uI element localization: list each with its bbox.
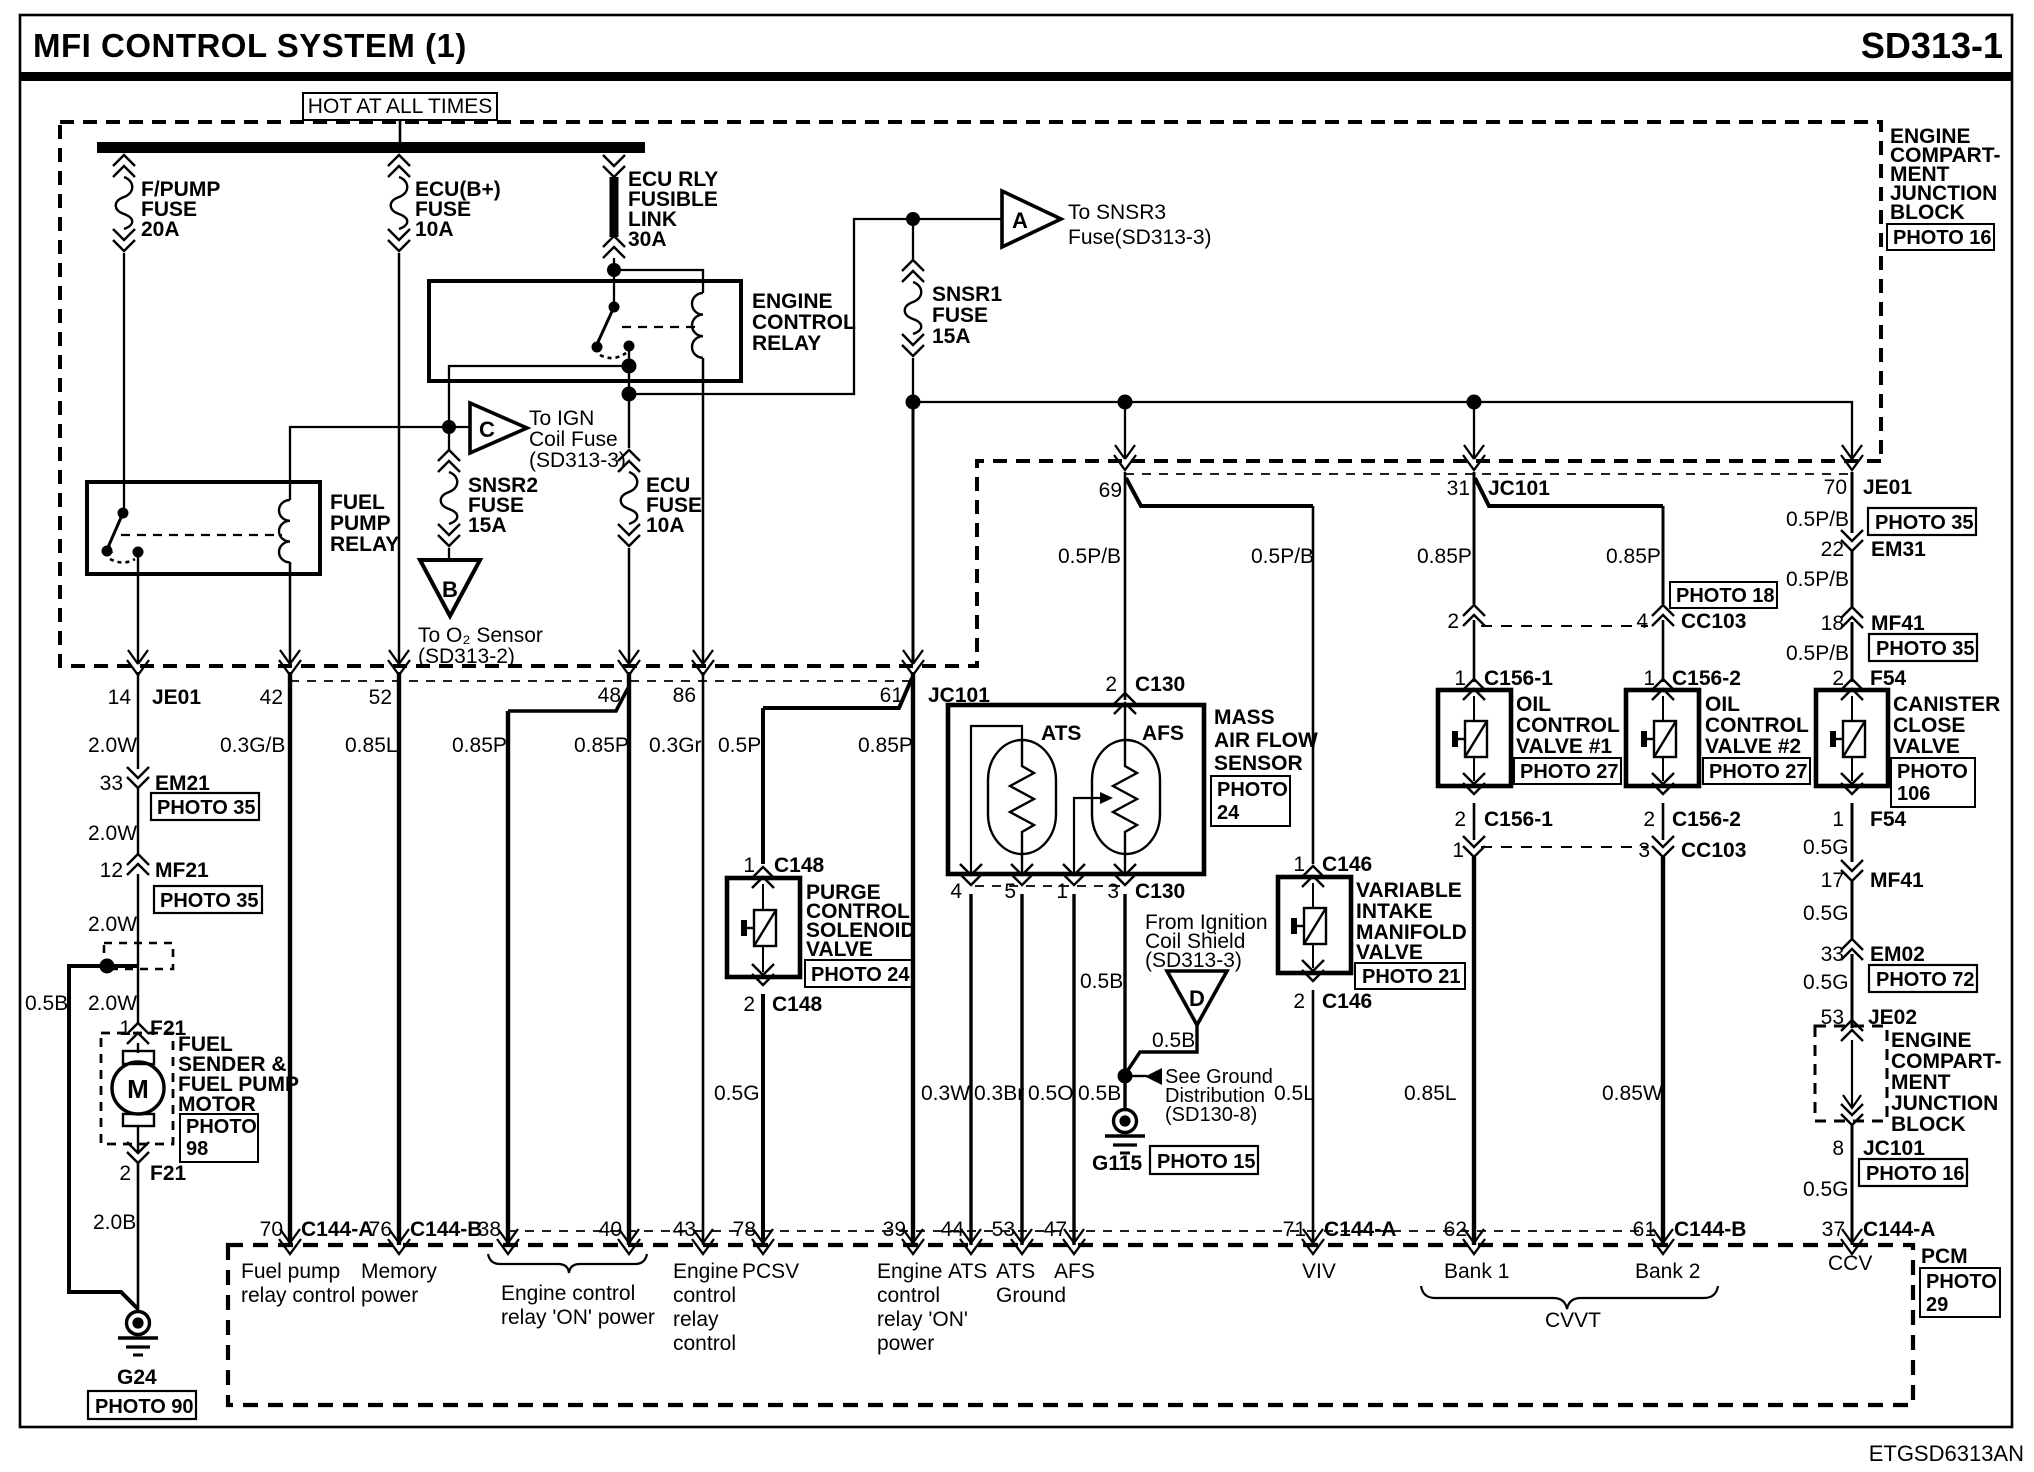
dashed link CC103 pins 2-4: [1481, 625, 1648, 627]
svg-text:2.0W: 2.0W: [88, 992, 137, 1015]
connector CC103 pin 3: [1652, 836, 1674, 857]
connector JC101 pin 8: [1841, 1104, 1863, 1125]
junction block exit pin 42: [279, 650, 301, 675]
wire node to triangle C: [449, 426, 470, 428]
svg-text:control: control: [673, 1332, 736, 1355]
svg-text:C144-B: C144-B: [1674, 1218, 1746, 1241]
wire MF41 to F54: [1851, 622, 1854, 682]
HOT AT ALL TIMES label: [303, 93, 497, 120]
svg-text:VALVE: VALVE: [1893, 735, 1960, 758]
relay U1 switch: [118, 508, 129, 519]
svg-text:0.85P: 0.85P: [858, 734, 913, 757]
svg-text:PHOTO 35: PHOTO 35: [160, 890, 259, 912]
wire branch jog pin 31 to oil valve 2: [1475, 478, 1663, 506]
svg-text:71: 71: [1283, 1218, 1306, 1241]
wire MF41 17 to EM02: [1851, 881, 1854, 940]
svg-text:ATS: ATS: [948, 1260, 987, 1283]
svg-text:70: 70: [1824, 476, 1847, 499]
svg-text:relay control: relay control: [241, 1284, 355, 1307]
svg-text:1: 1: [1056, 880, 1068, 903]
svg-text:0.85W: 0.85W: [1602, 1082, 1663, 1105]
relay U2 armature link dashed: [622, 326, 697, 328]
svg-text:C144-A: C144-A: [1324, 1218, 1396, 1241]
svg-text:CVVT: CVVT: [1545, 1309, 1601, 1332]
PCM pin 53: [1011, 1229, 1033, 1254]
photo 29 ref: [1920, 1268, 2000, 1317]
svg-text:2: 2: [1105, 673, 1117, 696]
junction block exit pin 69: [1114, 445, 1136, 470]
svg-text:8: 8: [1832, 1137, 1844, 1160]
svg-text:PHOTO 27: PHOTO 27: [1709, 761, 1808, 783]
svg-text:86: 86: [673, 684, 696, 707]
photo 15 ref: [1150, 1146, 1258, 1174]
svg-text:Memory: Memory: [361, 1260, 437, 1283]
svg-text:PHOTO: PHOTO: [1217, 779, 1288, 801]
wire link to node: [613, 258, 615, 307]
photo 24 ref (purge): [805, 960, 912, 987]
svg-text:2.0W: 2.0W: [88, 913, 137, 936]
PCM connector dashed link line: [508, 1230, 1664, 1232]
svg-text:14: 14: [108, 686, 132, 709]
wire ECU fuse to pin 48: [628, 548, 631, 664]
PCM pin 70 C144-A: [279, 1229, 301, 1254]
PCM pin 71 C144-A: [1302, 1229, 1324, 1254]
svg-text:0.3G/B: 0.3G/B: [220, 734, 285, 757]
connector pin 1 (bank1 lower): [1463, 836, 1485, 857]
photo 98 ref: [180, 1114, 258, 1162]
connector C148 pin 1: [752, 867, 774, 888]
svg-text:(SD130-8): (SD130-8): [1165, 1104, 1257, 1126]
connector C146 pin 1 (VIV): [1302, 866, 1324, 887]
purge valve internal wire: [762, 884, 764, 972]
wire pin 69 to MAF pin 2: [1124, 472, 1127, 700]
svg-text:3: 3: [1638, 839, 1650, 862]
svg-text:G24: G24: [117, 1366, 157, 1389]
svg-text:2: 2: [743, 993, 755, 1016]
svg-text:CC103: CC103: [1681, 839, 1746, 862]
svg-text:MF21: MF21: [155, 859, 209, 882]
svg-text:0.5G: 0.5G: [1803, 971, 1849, 994]
connector CC103 pin 4 (bank2): [1652, 605, 1674, 626]
wire fuse F/PUMP to fuel pump relay: [123, 253, 125, 510]
svg-text:PHOTO 16: PHOTO 16: [1893, 227, 1992, 249]
svg-text:VIV: VIV: [1302, 1260, 1336, 1283]
node below relay box: [622, 387, 637, 402]
brace CVVT: [1421, 1286, 1718, 1309]
svg-text:0.85P: 0.85P: [574, 734, 629, 757]
svg-text:0.5G: 0.5G: [714, 1082, 760, 1105]
svg-text:CLOSE: CLOSE: [1893, 714, 1965, 737]
svg-text:0.5P/B: 0.5P/B: [1786, 568, 1849, 591]
svg-text:C148: C148: [774, 854, 825, 877]
svg-text:69: 69: [1099, 479, 1122, 502]
wire node to pin 69: [1124, 402, 1126, 459]
photo 72 ref: [1869, 965, 1977, 992]
connector C156-2 pin 1: [1652, 679, 1674, 700]
svg-text:PHOTO 35: PHOTO 35: [1876, 638, 1975, 660]
svg-text:AFS: AFS: [1054, 1260, 1095, 1283]
wire pin 86 to PCM 43: [702, 672, 705, 1245]
svg-text:SNSR1: SNSR1: [932, 283, 1002, 306]
svg-text:0.85P: 0.85P: [1606, 545, 1661, 568]
wire oil valve 2 to PCM 61: [1661, 857, 1665, 1245]
wire to triangle C / SNSR2 column: [449, 366, 629, 427]
svg-text:To SNSR3: To SNSR3: [1068, 201, 1166, 224]
triangle connector D: [1167, 971, 1227, 1025]
svg-text:2.0B: 2.0B: [93, 1211, 136, 1234]
svg-text:22: 22: [1821, 538, 1844, 561]
svg-text:1: 1: [1293, 853, 1305, 876]
svg-text:JE01: JE01: [1863, 476, 1912, 499]
variable intake manifold valve box: [1278, 877, 1351, 973]
svg-text:C130: C130: [1135, 880, 1185, 903]
svg-text:PHOTO 35: PHOTO 35: [1875, 512, 1974, 534]
svg-text:98: 98: [186, 1138, 208, 1160]
PCM pin 61 C144-B: [1652, 1229, 1674, 1254]
PCM pin 43: [692, 1229, 714, 1254]
svg-text:power: power: [877, 1332, 934, 1355]
mass air flow sensor box: [948, 705, 1204, 874]
svg-text:2: 2: [1454, 808, 1466, 831]
wire to SNSR3 feed riser: [629, 219, 1002, 394]
PCM dashed box: [228, 1245, 1913, 1405]
svg-text:61: 61: [1633, 1218, 1656, 1241]
svg-text:relay 'ON' power: relay 'ON' power: [501, 1306, 655, 1329]
svg-text:MF41: MF41: [1871, 612, 1925, 635]
svg-text:0.85P: 0.85P: [452, 734, 507, 757]
svg-text:CCV: CCV: [1828, 1252, 1872, 1275]
svg-text:AIR FLOW: AIR FLOW: [1214, 729, 1318, 752]
svg-text:ENGINE: ENGINE: [752, 290, 833, 313]
svg-text:PHOTO 27: PHOTO 27: [1520, 761, 1619, 783]
svg-text:0.5G: 0.5G: [1803, 902, 1849, 925]
svg-text:2: 2: [1643, 808, 1655, 831]
PCM pin 40: [618, 1229, 640, 1254]
triangle connector C: [470, 403, 527, 453]
svg-text:ETGSD6313AN: ETGSD6313AN: [1869, 1441, 2024, 1466]
junction block exit pin 52: [388, 650, 410, 675]
photo 24 ref (MAF): [1211, 776, 1290, 826]
svg-text:47: 47: [1044, 1218, 1067, 1241]
svg-text:F54: F54: [1870, 808, 1907, 831]
svg-text:MOTOR: MOTOR: [178, 1093, 256, 1116]
svg-text:G115: G115: [1092, 1152, 1143, 1175]
svg-text:F21: F21: [150, 1162, 187, 1185]
svg-text:Engine control: Engine control: [501, 1282, 635, 1305]
svg-text:To IGN: To IGN: [529, 407, 594, 430]
svg-text:BLOCK: BLOCK: [1891, 1113, 1966, 1136]
svg-text:CONTROL: CONTROL: [1516, 714, 1620, 737]
purge control solenoid valve box: [727, 878, 800, 977]
relay U2 coil: [692, 293, 703, 358]
wire to connector 3: [1662, 803, 1665, 840]
svg-text:0.3W: 0.3W: [921, 1082, 970, 1105]
svg-text:control: control: [673, 1284, 736, 1307]
svg-text:OIL: OIL: [1516, 693, 1551, 716]
junction block exit pin 70 JE01: [1841, 445, 1863, 470]
junction block 2 dashed box: [1815, 1026, 1887, 1121]
svg-text:15A: 15A: [468, 514, 507, 537]
connector C130 pin 2: [1114, 693, 1136, 714]
svg-text:0.5B: 0.5B: [1078, 1082, 1121, 1105]
svg-text:0.5G: 0.5G: [1803, 836, 1849, 859]
svg-text:C146: C146: [1322, 990, 1372, 1013]
svg-text:0.5P/B: 0.5P/B: [1786, 508, 1849, 531]
connector MF41 pin 18: [1841, 607, 1863, 628]
wire branch jog to pin 38: [508, 688, 628, 711]
fusible link ECU RLY FUSIBLE LINK 30A: [603, 155, 625, 258]
fuse ECU(B+) FUSE 10A: [388, 155, 410, 251]
connector chevron VIV bottom: [1302, 960, 1324, 981]
svg-text:EM31: EM31: [1871, 538, 1926, 561]
photo 106 ref: [1891, 758, 1975, 807]
wire to C156-2: [1662, 620, 1665, 682]
svg-text:SENSOR: SENSOR: [1214, 752, 1303, 775]
wire F21 pin2 to ground: [137, 1163, 140, 1310]
canister solenoid element: [1833, 721, 1865, 757]
fuel pump relay box U1: [87, 482, 320, 574]
svg-text:0.5P/B: 0.5P/B: [1786, 642, 1849, 665]
wire relay U1 switch to pin 14: [137, 552, 139, 664]
JC101 connector dashed link line: [290, 680, 913, 682]
PCM pin 76 C144-B: [388, 1229, 410, 1254]
wire 0.5B branch to G24: [69, 966, 138, 1309]
node junction below fusible link: [607, 263, 621, 277]
svg-text:VALVE #2: VALVE #2: [1705, 735, 1801, 758]
svg-text:F54: F54: [1870, 667, 1907, 690]
power bus bar: [97, 142, 645, 153]
svg-text:BLOCK: BLOCK: [1890, 201, 1965, 224]
fuel sender dashed box: [101, 1033, 173, 1144]
oil valve 1 solenoid element: [1455, 721, 1487, 757]
node SNSR1 top: [906, 212, 920, 226]
svg-text:SD313-1: SD313-1: [1861, 25, 2003, 66]
svg-text:0.5L: 0.5L: [1274, 1082, 1315, 1105]
svg-text:Bank 2: Bank 2: [1635, 1260, 1700, 1283]
engine control relay box U2: [429, 281, 741, 381]
svg-text:5: 5: [1004, 880, 1016, 903]
wire pin 61 to PCM 39: [911, 672, 915, 1245]
valve 1 internal wire: [1473, 696, 1475, 781]
wire tick from label to bus: [399, 120, 402, 143]
svg-text:2.0W: 2.0W: [88, 734, 137, 757]
svg-text:power: power: [361, 1284, 418, 1307]
svg-text:control: control: [877, 1284, 940, 1307]
relay U1 armature link dashed: [121, 534, 282, 536]
canister close valve box: [1816, 690, 1888, 786]
connector CC103 pin 2 (bank1): [1463, 605, 1485, 626]
relay U1 coil: [279, 500, 290, 562]
svg-text:PUMP: PUMP: [330, 512, 391, 535]
connector chevron purge bottom: [752, 964, 774, 985]
svg-text:4: 4: [950, 880, 962, 903]
connector F21 pin 2: [127, 1142, 149, 1163]
oil control valve #1 box: [1438, 690, 1511, 786]
wire relay coil to pin 86: [702, 358, 705, 664]
node bus to pin 31: [1467, 395, 1482, 410]
svg-text:0.5G: 0.5G: [1803, 1178, 1849, 1201]
svg-text:70: 70: [260, 1218, 283, 1241]
triangle connector B: [420, 560, 480, 616]
svg-text:PHOTO 15: PHOTO 15: [1157, 1151, 1256, 1173]
wire branch jog pin 69 to VIV: [1126, 478, 1313, 506]
purge solenoid element: [744, 910, 776, 946]
triangle connector A: [1002, 191, 1061, 247]
svg-text:0.5B: 0.5B: [1080, 970, 1123, 993]
connector chevron valve2 bottom: [1652, 773, 1674, 794]
fuse ECU FUSE 10A: [618, 450, 640, 546]
svg-text:40: 40: [599, 1218, 622, 1241]
wire node to fuel pump relay coil: [290, 427, 449, 500]
wire ECU(B+) fuse to pin 52: [398, 253, 401, 664]
wire MAF pin 5 to PCM 53: [1020, 894, 1023, 1245]
svg-text:78: 78: [733, 1218, 756, 1241]
svg-text:33: 33: [1821, 943, 1844, 966]
svg-text:PCM: PCM: [1921, 1245, 1968, 1268]
wire SNSR2 to triangle B: [448, 548, 450, 560]
connector EM21 pin 33: [127, 767, 149, 788]
svg-text:C156-1: C156-1: [1484, 808, 1553, 831]
wire bus to JE01 70: [913, 402, 1852, 461]
oil control valve #2 box: [1626, 690, 1699, 786]
svg-text:43: 43: [673, 1218, 696, 1241]
connector F21 pin 1: [127, 1023, 149, 1044]
connector MF21 pin 12: [127, 854, 149, 875]
svg-text:0.85L: 0.85L: [345, 734, 398, 757]
svg-text:PHOTO 90: PHOTO 90: [95, 1396, 194, 1418]
svg-text:PCSV: PCSV: [742, 1260, 799, 1283]
wire relay U1 coil to pin 42: [289, 562, 292, 664]
svg-text:C: C: [479, 417, 495, 442]
svg-text:PHOTO: PHOTO: [1926, 1271, 1997, 1293]
VIV internal wire: [1312, 883, 1314, 968]
svg-text:(SD313-3): (SD313-3): [529, 449, 626, 472]
node switch output to SNSR2 branch: [622, 359, 637, 374]
node ground splice: [1118, 1069, 1133, 1084]
svg-text:37: 37: [1822, 1218, 1845, 1241]
svg-text:C156-1: C156-1: [1484, 667, 1553, 690]
wire into motor: [137, 1043, 139, 1053]
PCM pin 47: [1063, 1229, 1085, 1254]
svg-text:3: 3: [1107, 880, 1119, 903]
connector C156-1 pin 1: [1463, 679, 1485, 700]
connector chevrons MAF bottom pins: [960, 864, 982, 885]
svg-text:relay 'ON': relay 'ON': [877, 1308, 968, 1331]
svg-text:38: 38: [478, 1218, 501, 1241]
svg-text:C144-A: C144-A: [301, 1218, 373, 1241]
svg-text:OIL: OIL: [1705, 693, 1740, 716]
svg-text:To O₂ Sensor: To O₂ Sensor: [418, 624, 543, 647]
svg-text:C144-A: C144-A: [1863, 1218, 1935, 1241]
svg-text:PHOTO 18: PHOTO 18: [1676, 585, 1775, 607]
svg-text:17: 17: [1821, 869, 1844, 892]
PCM pin 44: [960, 1229, 982, 1254]
wire MAF pin 1 to PCM 47: [1072, 894, 1075, 1245]
svg-text:C156-2: C156-2: [1672, 808, 1741, 831]
svg-text:24: 24: [1217, 802, 1240, 824]
junction block label: [1890, 125, 2000, 224]
connector chevron valve1 bottom: [1463, 773, 1485, 794]
connector EM31 pin 22: [1841, 530, 1863, 551]
junction block exit pin 14 JE01: [127, 650, 149, 675]
svg-text:29: 29: [1926, 1294, 1948, 1316]
wire pin 52 to PCM 76: [397, 672, 401, 1245]
svg-text:76: 76: [369, 1218, 392, 1241]
svg-text:48: 48: [598, 684, 621, 707]
svg-text:PHOTO: PHOTO: [1897, 761, 1968, 783]
wire to connector 1: [1473, 803, 1476, 840]
svg-text:42: 42: [260, 686, 283, 709]
wire node to pin 31: [1473, 402, 1475, 459]
wire relay switch output node: [628, 346, 630, 448]
svg-text:B: B: [442, 577, 458, 602]
wire oil valve 1 to PCM 62: [1472, 857, 1476, 1245]
svg-text:PHOTO: PHOTO: [186, 1116, 257, 1138]
connector MF41 pin 17: [1841, 860, 1863, 881]
svg-text:1: 1: [1452, 839, 1464, 862]
svg-text:MF41: MF41: [1870, 869, 1924, 892]
svg-text:0.5B: 0.5B: [25, 992, 68, 1015]
junction block exit pin 48: [618, 650, 640, 675]
svg-text:12: 12: [100, 859, 123, 882]
svg-text:20A: 20A: [141, 218, 180, 241]
svg-text:AFS: AFS: [1142, 722, 1184, 745]
node SNSR1 output: [906, 395, 921, 410]
title underline bar: [20, 72, 2012, 81]
wire MAF pin 4 to PCM 44: [969, 894, 972, 1245]
PCM pin 62: [1463, 1229, 1485, 1254]
wire JC101 8 to PCM 37: [1851, 1125, 1854, 1245]
svg-text:C130: C130: [1135, 673, 1185, 696]
photo 21 ref: [1355, 963, 1465, 989]
wire MF21 down: [137, 874, 139, 1024]
svg-text:FUEL: FUEL: [330, 491, 385, 514]
svg-text:Coil Fuse: Coil Fuse: [529, 428, 618, 451]
svg-text:Fuel pump: Fuel pump: [241, 1260, 340, 1283]
VIV solenoid element: [1294, 908, 1326, 944]
fuse F/PUMP FUSE 20A: [113, 155, 135, 251]
inline splice dashed box: [104, 943, 173, 969]
svg-text:M: M: [127, 1074, 149, 1104]
svg-text:C156-2: C156-2: [1672, 667, 1741, 690]
svg-text:RELAY: RELAY: [330, 533, 399, 556]
svg-text:0.85L: 0.85L: [1404, 1082, 1457, 1105]
svg-text:10A: 10A: [415, 218, 454, 241]
canister valve internal wire: [1851, 696, 1853, 781]
engine compartment junction block dashed outline: [60, 122, 1881, 666]
svg-text:PHOTO 35: PHOTO 35: [157, 797, 256, 819]
svg-text:FUSE: FUSE: [932, 304, 988, 327]
svg-text:2: 2: [1293, 990, 1305, 1013]
wire to C156-1: [1473, 620, 1476, 682]
wire MAF pin 3 to ground node: [1123, 894, 1126, 1110]
see ground distribution pointer: [1132, 1075, 1147, 1077]
dashed link lower pins 1-3: [1481, 846, 1648, 848]
svg-text:52: 52: [369, 686, 392, 709]
svg-text:44: 44: [941, 1218, 965, 1241]
svg-text:EM21: EM21: [155, 772, 210, 795]
svg-text:VARIABLE: VARIABLE: [1356, 879, 1462, 902]
svg-text:CONTROL: CONTROL: [1705, 714, 1809, 737]
PCM pin 78: [752, 1229, 774, 1254]
photo 35 ref (MF21): [154, 886, 262, 913]
svg-text:(SD313-3): (SD313-3): [1145, 949, 1242, 972]
valve 2 internal wire: [1662, 696, 1664, 781]
wire SNSR1 node down to pin 61: [912, 402, 915, 664]
svg-text:relay: relay: [673, 1308, 719, 1331]
svg-text:JUNCTION: JUNCTION: [1891, 1092, 1998, 1115]
wire D to ground node: [1126, 1025, 1197, 1073]
